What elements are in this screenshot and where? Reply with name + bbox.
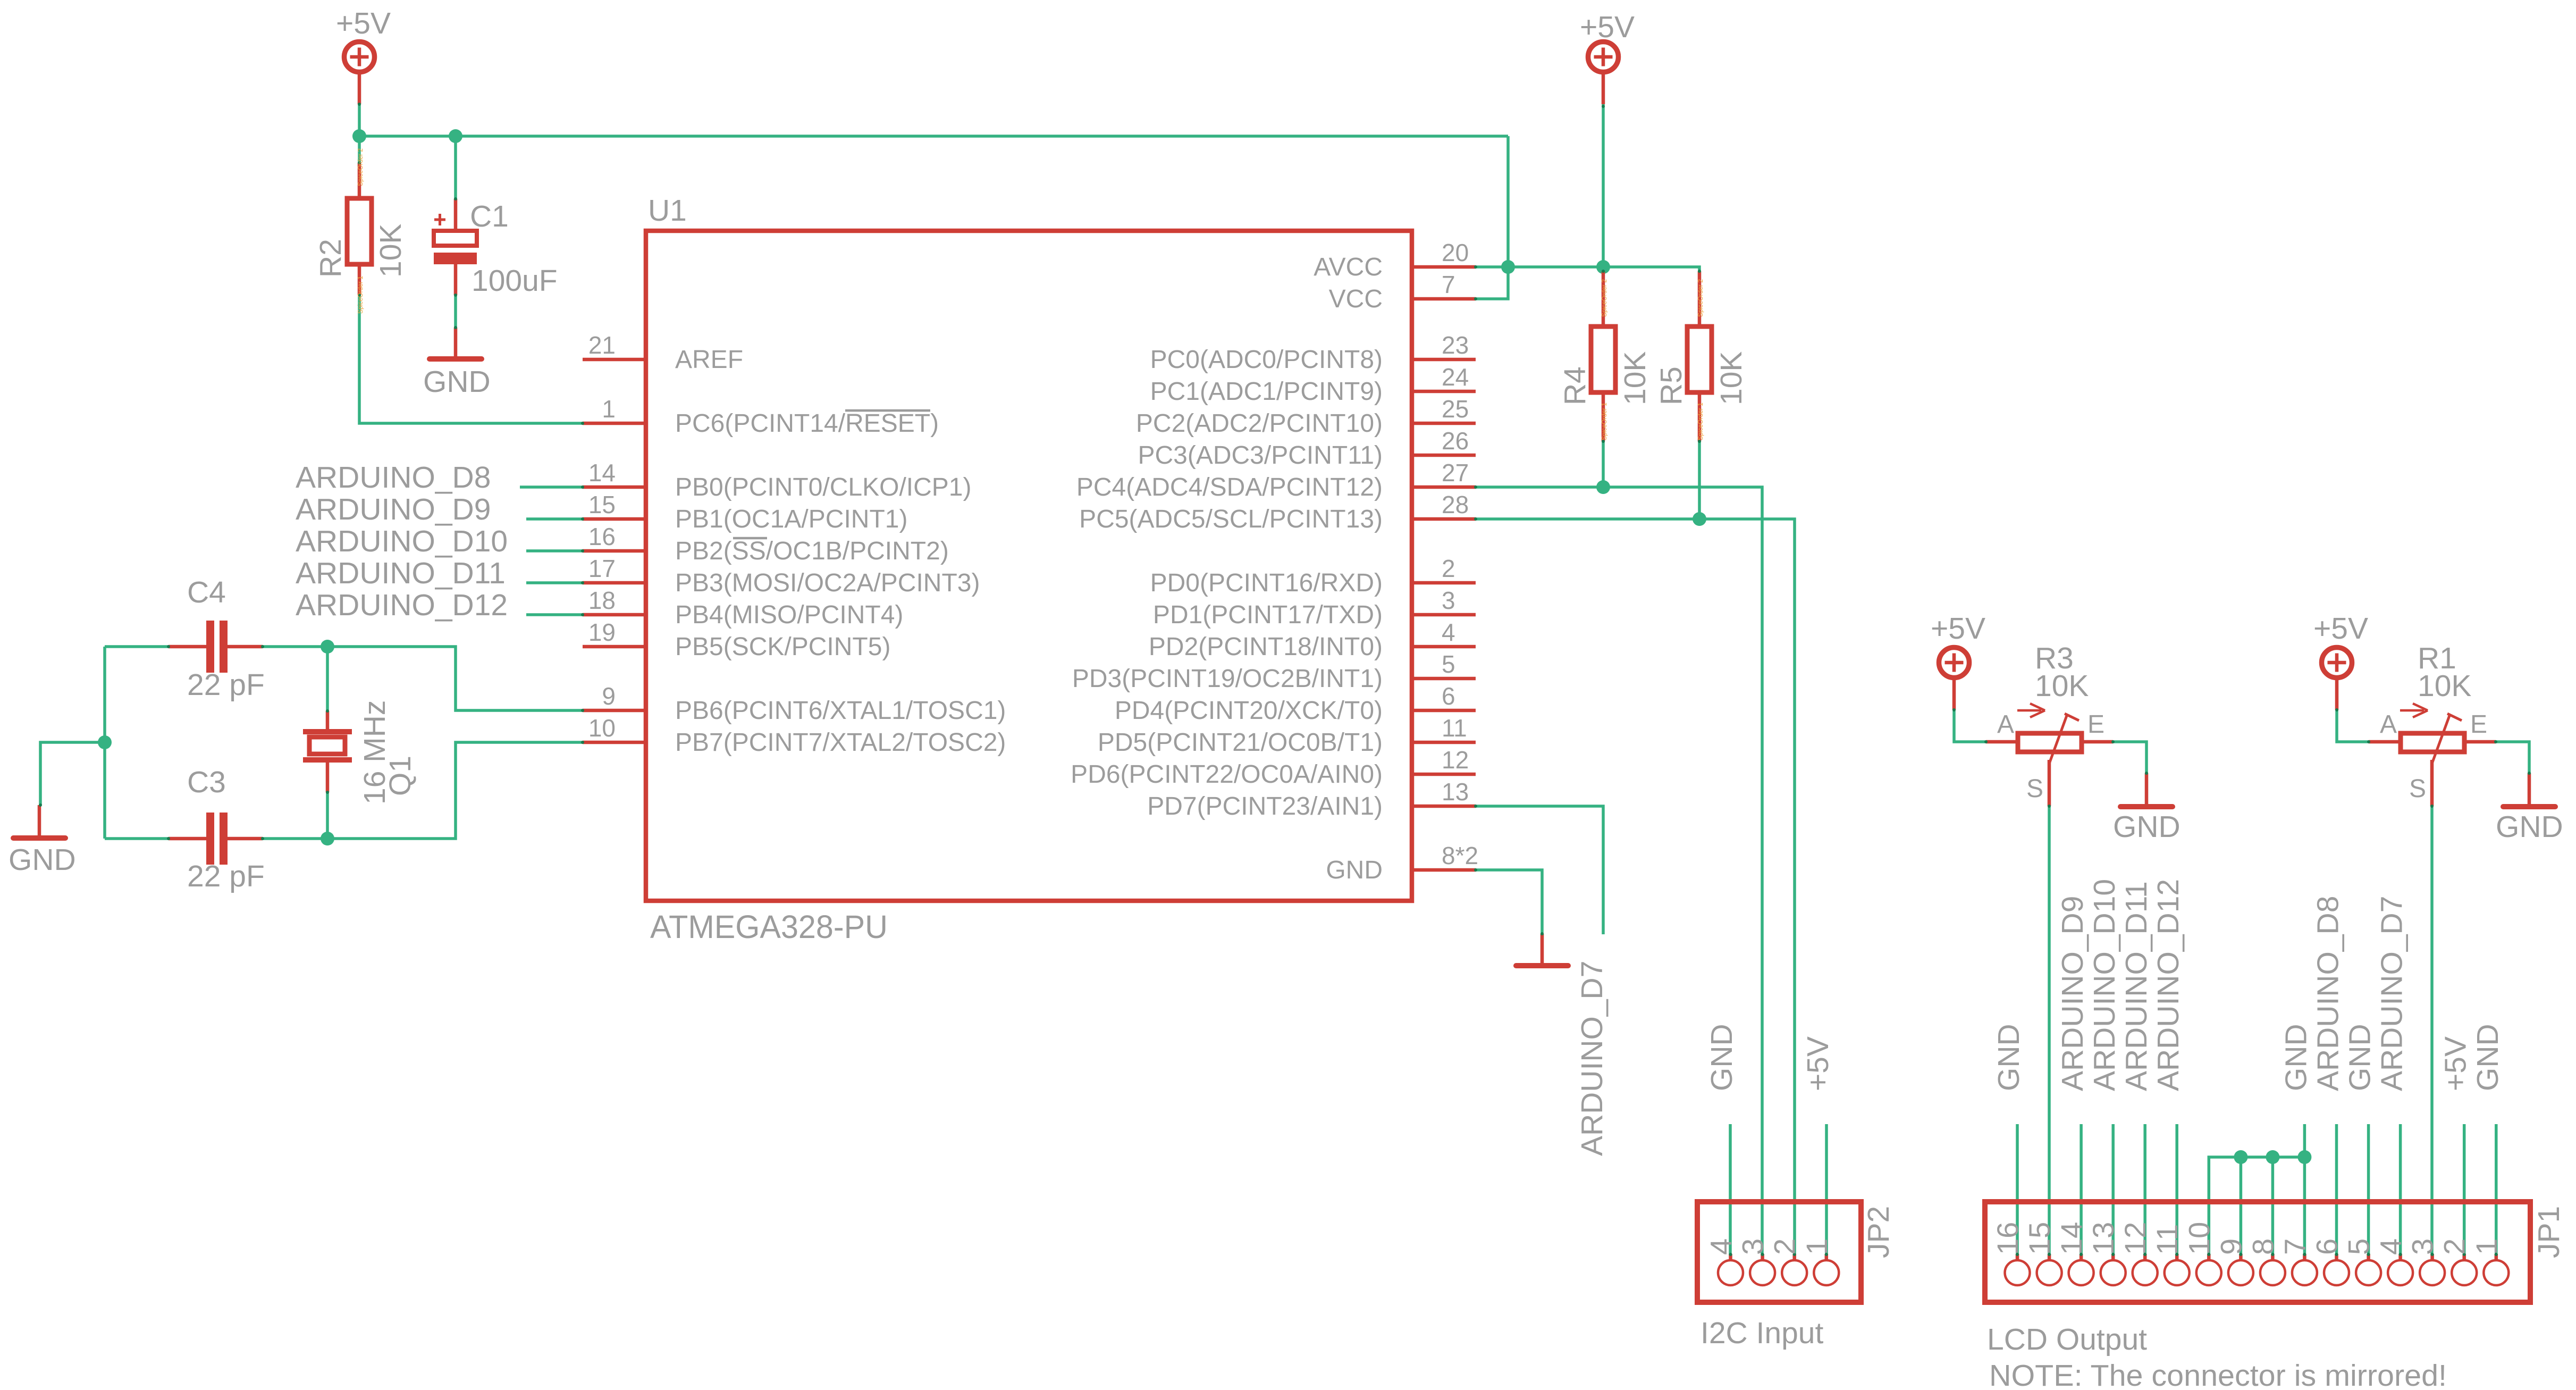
svg-text:25: 25 (1442, 395, 1469, 423)
svg-text:ARDUINO_D9: ARDUINO_D9 (296, 492, 491, 526)
svg-text:ARDUINO_D10: ARDUINO_D10 (296, 524, 508, 558)
svg-text:S: S (2026, 775, 2043, 803)
potentiometer R1 S pin (2430, 760, 2434, 806)
potentiometer R3 S pin (2048, 760, 2051, 806)
pin 17 stub (left) (583, 581, 646, 585)
svg-text:15: 15 (588, 491, 616, 518)
svg-text:PC6(PCINT14/RESET): PC6(PCINT14/RESET) (675, 409, 939, 438)
node pin 9 attach dot (581, 709, 584, 712)
potentiometer R3 E pin (2084, 740, 2113, 744)
svg-text:9: 9 (2214, 1238, 2247, 1255)
pin 26 stub (right) (1412, 454, 1476, 457)
pin 7 stub (right) (1412, 297, 1476, 301)
crystal Q1 top electrode (303, 729, 352, 734)
crystal Q1 bottom electrode (303, 757, 352, 763)
node pin 7 attach dot (1474, 297, 1477, 300)
potentiometer R1 E pin (2466, 740, 2496, 744)
node R1 S attach dot (2430, 805, 2434, 808)
pin 8*2 GND stub (right) (1412, 868, 1476, 872)
capacitor C4 left pin (169, 645, 207, 649)
pin 3 stub (right) (1412, 613, 1476, 617)
crystal Q1 body (309, 737, 345, 754)
wire R5 bottom to SCL net (1698, 441, 1701, 519)
wire JP1 pin9 stub (2240, 1157, 2243, 1255)
pin 10 stub (left) (583, 741, 646, 744)
svg-text:Q1: Q1 (383, 756, 417, 796)
pin 2 stub (right) (1412, 581, 1476, 585)
node R2 top attach dot (358, 161, 361, 164)
svg-text:26: 26 (1442, 427, 1469, 455)
resistor R2 bottom pin (358, 264, 361, 295)
svg-text:JP2: JP2 (1862, 1206, 1896, 1258)
svg-text:13: 13 (1442, 778, 1469, 806)
node R1 A attach dot (2367, 740, 2370, 743)
svg-text:VCC: VCC (1329, 285, 1383, 313)
wire C3 left to left rail (105, 837, 169, 840)
svg-text:GND: GND (1992, 1024, 2026, 1091)
node pin 20 attach dot (1474, 265, 1477, 269)
pin 4 stub (right) (1412, 645, 1476, 649)
node C1 junction (449, 129, 462, 143)
svg-text:16: 16 (1991, 1222, 2024, 1255)
svg-text:ARDUINO_D10: ARDUINO_D10 (2087, 879, 2122, 1091)
potentiometer R3 body (2018, 733, 2082, 752)
svg-text:100uF: 100uF (472, 264, 558, 298)
wire JP1 pin11 net ARDUINO_D12 (2175, 1124, 2178, 1255)
node supply R3 pin attach dot (1952, 708, 1956, 711)
svg-text:19: 19 (588, 618, 616, 646)
wire R4 bottom to SDA net (1602, 441, 1605, 487)
svg-text:15: 15 (2023, 1222, 2056, 1255)
crystal Q1 bottom pin (326, 762, 330, 792)
wire JP1 pin14 net ARDUINO_D9 (2080, 1124, 2083, 1255)
pin 24 stub (right) (1412, 390, 1476, 393)
svg-text:SpiceOrder 1: SpiceOrder 1 (1697, 403, 1704, 440)
overline RESET (pin 1 label) (845, 409, 930, 412)
supply +5V symbol (R2/C1) (344, 42, 375, 105)
svg-text:PC0(ADC0/PCINT8): PC0(ADC0/PCINT8) (1150, 346, 1383, 374)
wire R4 top pin net (1602, 267, 1605, 271)
connector JP2 pin 2 pad (1782, 1253, 1807, 1285)
svg-text:28: 28 (1442, 491, 1469, 518)
capacitor C3 plates (206, 813, 228, 865)
svg-text:4: 4 (1704, 1238, 1738, 1255)
wire R2 bottom to RESET pin1 (359, 295, 583, 423)
capacitor C1 top pin (454, 199, 458, 231)
wire +5V to R3 A terminal (1954, 710, 1986, 742)
connector JP1 pin 4 pad (2388, 1253, 2413, 1285)
svg-text:PD2(PCINT18/INT0): PD2(PCINT18/INT0) (1149, 633, 1383, 661)
svg-text:ARDUINO_D11: ARDUINO_D11 (296, 556, 506, 590)
node C4 right attach dot (261, 645, 264, 648)
node R4 bottom attach dot (1602, 440, 1605, 443)
svg-text:4: 4 (2374, 1238, 2407, 1255)
node AVCC junction (1501, 260, 1515, 274)
IC U1 ATMEGA328-PU body (646, 231, 1412, 901)
potentiometer R3 wiper (2049, 714, 2079, 764)
connector JP1 pin 9 pad (2228, 1253, 2253, 1285)
overline SS (pin 16 label) (733, 537, 767, 540)
node JP1 ground bus dot pin9 (2234, 1150, 2247, 1164)
wire JP1 pin12 net ARDUINO_D11 (2143, 1124, 2146, 1255)
wire JP1 pin2 net +5V (2463, 1124, 2466, 1255)
svg-text:PD0(PCINT16/RXD): PD0(PCINT16/RXD) (1150, 569, 1383, 597)
svg-text:GND: GND (1326, 856, 1383, 884)
svg-text:ARDUINO_D7: ARDUINO_D7 (2375, 896, 2409, 1091)
wire JP1 pin4 net ARDUINO_D7 (2399, 1124, 2402, 1255)
node R4/+5V junction (1596, 260, 1610, 274)
node gnd IC pin attach dot (1540, 932, 1544, 935)
connector JP2 pin 1 pad (1814, 1253, 1839, 1285)
svg-text:PC5(ADC5/SCL/PCINT13): PC5(ADC5/SCL/PCINT13) (1079, 505, 1383, 533)
svg-text:GND: GND (2496, 810, 2563, 844)
svg-text:11: 11 (1442, 714, 1467, 742)
svg-text:10K: 10K (374, 224, 408, 278)
pin 18 stub (left) (583, 613, 646, 617)
svg-text:GND: GND (2113, 810, 2181, 844)
wire net SDA pin27 to JP2 pin3 (1476, 487, 1762, 1255)
wire +5V supply2 drop (1602, 103, 1605, 267)
wire JP2 pin1 +5V stub (1825, 1124, 1828, 1255)
svg-text:C1: C1 (470, 199, 509, 233)
node R2 bottom attach dot (358, 294, 361, 297)
connector JP1 pin 14 pad (2069, 1253, 2094, 1285)
svg-text:8*2: 8*2 (1442, 842, 1478, 869)
node pin 18 attach dot (581, 613, 584, 616)
svg-text:10K: 10K (1714, 351, 1748, 405)
wire net ARDUINO_D11 to pin 17 (526, 581, 583, 584)
wire JP1 pin6 net ARDUINO_D8 (2335, 1124, 2338, 1255)
svg-text:16: 16 (588, 523, 616, 550)
svg-text:PD4(PCINT20/XCK/T0): PD4(PCINT20/XCK/T0) (1115, 697, 1383, 725)
capacitor C1 top plate (434, 231, 477, 246)
svg-text:+5V: +5V (336, 6, 391, 40)
svg-text:GND: GND (2279, 1024, 2313, 1091)
connector JP1 pin 6 pad (2324, 1253, 2349, 1285)
svg-text:R4: R4 (1558, 366, 1592, 405)
wire net ARDUINO_D9 to pin 15 (526, 517, 583, 521)
connector JP2 pin 4 pad (1718, 1253, 1743, 1285)
svg-text:PB5(SCK/PCINT5): PB5(SCK/PCINT5) (675, 633, 890, 661)
pin 13 stub (right) (1412, 805, 1476, 808)
svg-text:1: 1 (2470, 1238, 2503, 1255)
svg-text:AREF: AREF (675, 346, 743, 374)
capacitor C1 plus sign (434, 214, 445, 225)
connector JP2 pin 3 pad (1750, 1253, 1775, 1285)
svg-text:PB4(MISO/PCINT4): PB4(MISO/PCINT4) (675, 601, 903, 629)
wire C4 left to left rail (105, 645, 169, 648)
resistor R4 top pin (1602, 271, 1605, 326)
svg-text:A: A (2380, 710, 2397, 739)
svg-text:1: 1 (1800, 1238, 1833, 1255)
svg-text:PD1(PCINT17/TXD): PD1(PCINT17/TXD) (1153, 601, 1383, 629)
wire left rail to GND symbol (40, 742, 105, 805)
connector JP2 body (1697, 1202, 1861, 1302)
pin 12 stub (right) (1412, 773, 1476, 776)
capacitor C1 bottom pin (454, 264, 458, 295)
connector JP1 pin 15 pad (2037, 1253, 2062, 1285)
wire net +5V bus down to AVCC (1476, 136, 1508, 299)
wire +5V to C1 top (454, 136, 457, 199)
wire AVCC pin20 net (1476, 265, 1508, 269)
svg-text:18: 18 (588, 587, 616, 614)
node C1 bottom attach dot (454, 294, 457, 297)
svg-text:PC2(ADC2/PCINT10): PC2(ADC2/PCINT10) (1136, 409, 1383, 438)
connector JP1 pin 13 pad (2101, 1253, 2126, 1285)
capacitor C4 plates (206, 621, 228, 673)
svg-text:+5V: +5V (2439, 1036, 2473, 1091)
svg-text:AVCC: AVCC (1314, 253, 1383, 281)
wire net ARDUINO_D12 to pin 18 (526, 613, 583, 616)
svg-text:PC1(ADC1/PCINT9): PC1(ADC1/PCINT9) (1150, 378, 1383, 406)
node left rail GND junction (98, 735, 112, 749)
node pin 16 attach dot (581, 549, 584, 552)
pin 20 stub (right) (1412, 265, 1476, 269)
svg-text:ARDUINO_D12: ARDUINO_D12 (296, 588, 508, 622)
node pin 10 attach dot (581, 741, 584, 744)
node pin 27 attach dot (1474, 485, 1477, 489)
node R1 E attach dot (2494, 740, 2497, 743)
svg-text:GND: GND (423, 365, 491, 399)
connector JP1 pin 7 pad (2292, 1253, 2317, 1285)
supply +5V symbol (R4/R5) (1588, 42, 1619, 105)
wire XTAL2 net: C3 right to PB7 pin10 (327, 742, 583, 839)
capacitor C1 bottom plate (434, 253, 477, 264)
svg-text:17: 17 (588, 555, 616, 582)
wire R1 S wiper down to JP1 pin3 (2430, 806, 2434, 1255)
node R4 top attach dot (1602, 270, 1605, 273)
wire R1 E to GND (2496, 742, 2529, 773)
svg-text:PD7(PCINT23/AIN1): PD7(PCINT23/AIN1) (1147, 792, 1383, 820)
node C3 left attach dot (167, 837, 170, 840)
supply +5V symbol (R1) (2322, 648, 2352, 710)
pin 25 stub (right) (1412, 422, 1476, 425)
ground symbol for IC GND pin (1516, 934, 1568, 966)
wire net ARDUINO_D7 from pin13 (1476, 806, 1603, 934)
ground symbol left of crystal (13, 805, 65, 838)
svg-text:10K: 10K (2418, 669, 2471, 703)
potentiometer R1 A pin (2369, 740, 2398, 744)
node pin 14 attach dot (581, 485, 584, 489)
potentiometer R3 A pin (1986, 740, 2016, 744)
pin 23 stub (right) (1412, 358, 1476, 362)
svg-text:10K: 10K (2035, 669, 2089, 703)
connector JP1 body (1985, 1202, 2530, 1302)
potentiometer R1 wiper (2432, 714, 2462, 764)
node crystal top junction (321, 640, 334, 654)
ground symbol for R3 (2120, 773, 2173, 807)
wire JP1 pin8 stub (2271, 1157, 2275, 1255)
node gnd C1 pin attach dot (454, 326, 457, 329)
svg-text:2: 2 (1442, 555, 1455, 582)
svg-text:13: 13 (2086, 1222, 2120, 1255)
wire JP1 pin16 net GND (2016, 1124, 2019, 1255)
svg-text:ARDUINO_D11: ARDUINO_D11 (2119, 881, 2153, 1091)
svg-text:C4: C4 (187, 575, 226, 609)
connector JP1 pin 12 pad (2133, 1253, 2158, 1285)
supply +5V symbol (R3) (1939, 648, 1969, 710)
svg-text:PB1(OC1A/PCINT1): PB1(OC1A/PCINT1) (675, 505, 907, 533)
svg-text:R2: R2 (314, 239, 348, 278)
wire JP1 pin1 net GND (2495, 1124, 2498, 1255)
svg-text:ARDUINO_D7: ARDUINO_D7 (1575, 961, 1609, 1156)
svg-text:PB6(PCINT6/XTAL1/TOSC1): PB6(PCINT6/XTAL1/TOSC1) (675, 697, 1006, 725)
wire IC GND pin to ground (1476, 870, 1542, 934)
svg-text:SpiceOrder 2: SpiceOrder 2 (1697, 279, 1704, 317)
pin 11 stub (right) (1412, 741, 1476, 744)
svg-text:ARDUINO_D9: ARDUINO_D9 (2056, 896, 2090, 1091)
svg-text:7: 7 (2278, 1238, 2311, 1255)
svg-text:10: 10 (588, 714, 616, 742)
node crystal bottom junction (321, 832, 334, 845)
node gnd left pin attach dot (39, 803, 42, 807)
svg-text:12: 12 (2118, 1222, 2152, 1255)
svg-text:10: 10 (2182, 1222, 2216, 1255)
svg-text:GND: GND (1705, 1024, 1739, 1091)
svg-text:3: 3 (2406, 1238, 2439, 1255)
svg-text:3: 3 (1736, 1238, 1770, 1255)
node pin 8*2 attach dot (1474, 868, 1477, 872)
svg-text:PC3(ADC3/PCINT11): PC3(ADC3/PCINT11) (1138, 441, 1383, 470)
svg-text:NOTE: The connector is mirrore: NOTE: The connector is mirrored! (1989, 1359, 2447, 1390)
ground symbol below C1 (430, 328, 482, 359)
svg-text:GND: GND (9, 843, 76, 877)
svg-text:14: 14 (588, 459, 616, 487)
svg-text:22 pF: 22 pF (187, 668, 265, 702)
wire net +5V top bus (358, 104, 361, 136)
svg-text:5: 5 (1442, 650, 1455, 678)
wire C4 right to crystal top (263, 645, 327, 648)
potentiometer R1 arrow (2400, 704, 2428, 717)
node R5 bottom attach dot (1698, 440, 1701, 443)
svg-text:LCD Output: LCD Output (1987, 1322, 2147, 1356)
svg-text:PB0(PCINT0/CLKO/ICP1): PB0(PCINT0/CLKO/ICP1) (675, 473, 971, 501)
svg-text:4: 4 (1442, 618, 1455, 646)
wire +5V to R1 A terminal (2337, 710, 2369, 742)
resistor R4 bottom pin (1602, 392, 1605, 441)
potentiometer R1 body (2401, 733, 2464, 752)
svg-text:PB2(SS/OC1B/PCINT2): PB2(SS/OC1B/PCINT2) (675, 537, 949, 565)
svg-text:ATMEGA328-PU: ATMEGA328-PU (650, 909, 888, 945)
connector JP1 pin 16 pad (2005, 1253, 2030, 1285)
svg-text:R5: R5 (1654, 366, 1688, 405)
ground symbol for R1 (2503, 773, 2555, 807)
wire crystal top pin net (326, 647, 329, 711)
svg-text:A: A (1997, 710, 2014, 739)
wire R3 S wiper down to JP1 pin15 (2048, 806, 2051, 1255)
svg-text:JP1: JP1 (2532, 1206, 2566, 1258)
svg-text:ARDUINO_D8: ARDUINO_D8 (296, 460, 491, 495)
pin 6 stub (right) (1412, 709, 1476, 713)
wire +5V to R2 top (358, 136, 361, 163)
svg-text:PD3(PCINT19/OC2B/INT1): PD3(PCINT19/OC2B/INT1) (1072, 665, 1383, 693)
svg-text:27: 27 (1442, 459, 1469, 487)
node crystal top attach dot (326, 709, 329, 713)
node R5 top attach dot (1698, 270, 1701, 273)
pin 15 stub (left) (583, 517, 646, 521)
connector JP1 pin 3 pad (2420, 1253, 2445, 1285)
node R3 S attach dot (2048, 805, 2051, 808)
svg-text:+5V: +5V (1931, 612, 1985, 646)
resistor R4 body (1591, 326, 1615, 392)
node +5V/R2 junction (352, 129, 366, 143)
svg-text:PD6(PCINT22/OC0A/AIN0): PD6(PCINT22/OC0A/AIN0) (1071, 760, 1383, 789)
svg-text:SpiceOrder 1: SpiceOrder 1 (1601, 403, 1608, 440)
pin 19 stub (left) (583, 645, 646, 649)
connector JP1 pin 2 pad (2452, 1253, 2477, 1285)
svg-text:2: 2 (1768, 1238, 1801, 1255)
node crystal bottom attach dot (326, 791, 329, 794)
svg-text:12: 12 (1442, 746, 1469, 774)
potentiometer R3 arrow (2017, 704, 2045, 717)
wire +5V to R5 top (1603, 267, 1699, 271)
svg-text:3: 3 (1442, 587, 1455, 614)
node JP1 ground bus dot pin8 (2266, 1150, 2279, 1164)
node pin 28 attach dot (1474, 517, 1477, 521)
resistor R2 top pin (358, 163, 361, 198)
svg-text:6: 6 (2310, 1238, 2344, 1255)
svg-text:+5V: +5V (1580, 10, 1635, 44)
svg-text:11: 11 (2150, 1224, 2184, 1255)
svg-text:23: 23 (1442, 331, 1469, 359)
svg-text:GND: GND (2343, 1024, 2377, 1091)
resistor R5 top pin (1698, 271, 1702, 326)
node pin 15 attach dot (581, 517, 584, 521)
svg-text:SpiceOrder 2: SpiceOrder 2 (1601, 279, 1608, 317)
svg-text:PB3(MOSI/OC2A/PCINT3): PB3(MOSI/OC2A/PCINT3) (675, 569, 980, 597)
svg-text:6: 6 (1442, 682, 1455, 710)
node R4/SDA junction (1596, 480, 1610, 494)
pin 16 stub (left) (583, 549, 646, 553)
svg-text:GND: GND (2471, 1024, 2505, 1091)
svg-text:8: 8 (2246, 1238, 2279, 1255)
pin 21 stub (left) (583, 358, 646, 362)
svg-text:9: 9 (602, 682, 616, 710)
node pin 17 attach dot (581, 581, 584, 584)
node supply R1 pin attach dot (2335, 708, 2338, 711)
capacitor C3 right pin (226, 837, 263, 841)
svg-text:I2C Input: I2C Input (1701, 1316, 1823, 1350)
node JP1 ground bus dot pin7 (2297, 1150, 2311, 1164)
node pin 13 attach dot (1474, 805, 1477, 808)
node R5/SCL junction (1693, 512, 1706, 526)
svg-text:SpiceOrder 1: SpiceOrder 1 (357, 276, 364, 314)
svg-text:10K: 10K (1618, 351, 1652, 405)
crystal Q1 top pin (326, 711, 330, 730)
wire JP1 pin13 net ARDUINO_D10 (2111, 1124, 2115, 1255)
svg-text:+5V: +5V (2313, 612, 2368, 646)
pin 9 stub (left) (583, 709, 646, 713)
svg-text:24: 24 (1442, 363, 1469, 391)
wire JP1 pin5 net GND (2367, 1124, 2370, 1255)
connector JP1 pin 1 pad (2484, 1253, 2508, 1285)
resistor R2 body (347, 198, 372, 264)
wire net +5V bus horizontal (359, 135, 1508, 138)
wire JP2 pin4 GND stub (1729, 1124, 1732, 1255)
wire R3 E to GND (2113, 742, 2146, 773)
node C3 right attach dot (261, 837, 264, 840)
pin 5 stub (right) (1412, 677, 1476, 681)
svg-text:1: 1 (602, 395, 616, 423)
capacitor C3 left pin (169, 837, 207, 841)
node pin 1 attach dot (581, 422, 584, 425)
svg-text:PB7(PCINT7/XTAL2/TOSC2): PB7(PCINT7/XTAL2/TOSC2) (675, 729, 1006, 757)
wire C1 bottom to GND (454, 295, 457, 328)
node C1 top attach dot (454, 197, 457, 200)
svg-text:PD5(PCINT21/OC0B/T1): PD5(PCINT21/OC0B/T1) (1098, 729, 1383, 757)
connector JP1 pin 11 pad (2165, 1253, 2190, 1285)
svg-text:22 pF: 22 pF (187, 859, 265, 893)
